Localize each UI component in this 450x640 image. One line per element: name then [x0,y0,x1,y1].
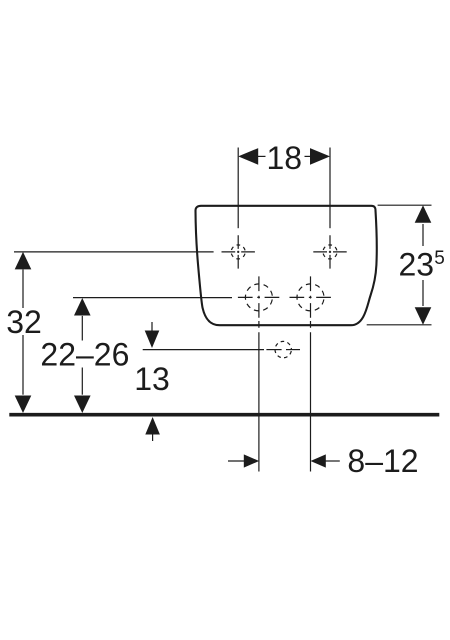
svg-text:18: 18 [267,140,303,176]
svg-text:13: 13 [134,361,170,397]
svg-text:22–26: 22–26 [40,337,129,373]
svg-text:8–12: 8–12 [347,443,418,479]
svg-text:23: 23 [399,247,435,283]
svg-text:32: 32 [6,304,42,340]
svg-text:5: 5 [434,248,445,269]
